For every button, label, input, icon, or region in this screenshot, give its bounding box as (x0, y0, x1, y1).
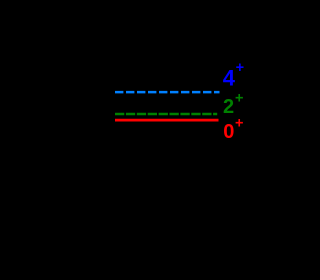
svg-text:+: + (235, 116, 243, 132)
level line 4+ (blue dashed) (115, 91, 220, 94)
level line 2+ (green dashed) (115, 113, 217, 116)
level line 0+ (red solid) (115, 119, 219, 122)
svg-text:0: 0 (223, 121, 234, 143)
svg-text:4: 4 (223, 66, 236, 91)
svg-text:+: + (236, 60, 244, 76)
svg-text:2: 2 (223, 96, 234, 118)
svg-text:+: + (235, 91, 243, 107)
